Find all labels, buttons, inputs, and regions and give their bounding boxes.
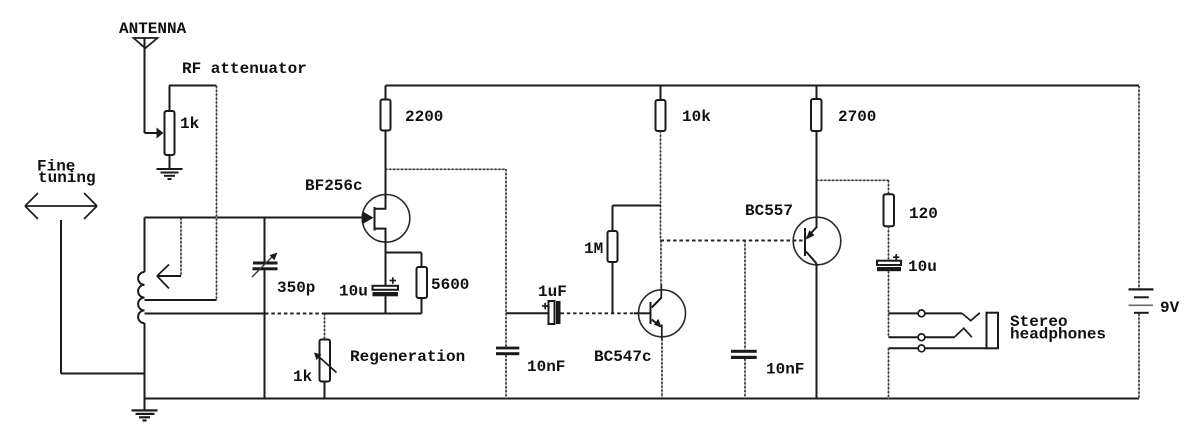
svg-text:ANTENNA: ANTENNA [119, 20, 187, 38]
svg-text:tuning: tuning [38, 169, 96, 187]
svg-text:headphones: headphones [1010, 326, 1106, 344]
svg-text:Regeneration: Regeneration [350, 348, 465, 366]
svg-text:RF attenuator: RF attenuator [182, 60, 307, 78]
svg-text:9V: 9V [1160, 299, 1180, 317]
svg-text:BC547c: BC547c [594, 348, 652, 366]
svg-text:2200: 2200 [405, 108, 443, 126]
svg-text:350p: 350p [277, 279, 315, 297]
svg-text:10u: 10u [339, 283, 368, 301]
svg-text:1k: 1k [180, 115, 200, 133]
svg-text:BF256c: BF256c [305, 177, 363, 195]
svg-text:5600: 5600 [431, 276, 469, 294]
svg-text:10u: 10u [908, 258, 937, 276]
svg-text:120: 120 [909, 205, 938, 223]
svg-text:10nF: 10nF [527, 358, 565, 376]
svg-text:1uF: 1uF [538, 283, 567, 301]
svg-text:10nF: 10nF [766, 361, 804, 379]
svg-text:1M: 1M [584, 240, 603, 258]
svg-text:10k: 10k [682, 108, 711, 126]
svg-text:BC557: BC557 [745, 202, 793, 220]
svg-text:2700: 2700 [838, 108, 876, 126]
svg-text:1k: 1k [293, 368, 313, 386]
